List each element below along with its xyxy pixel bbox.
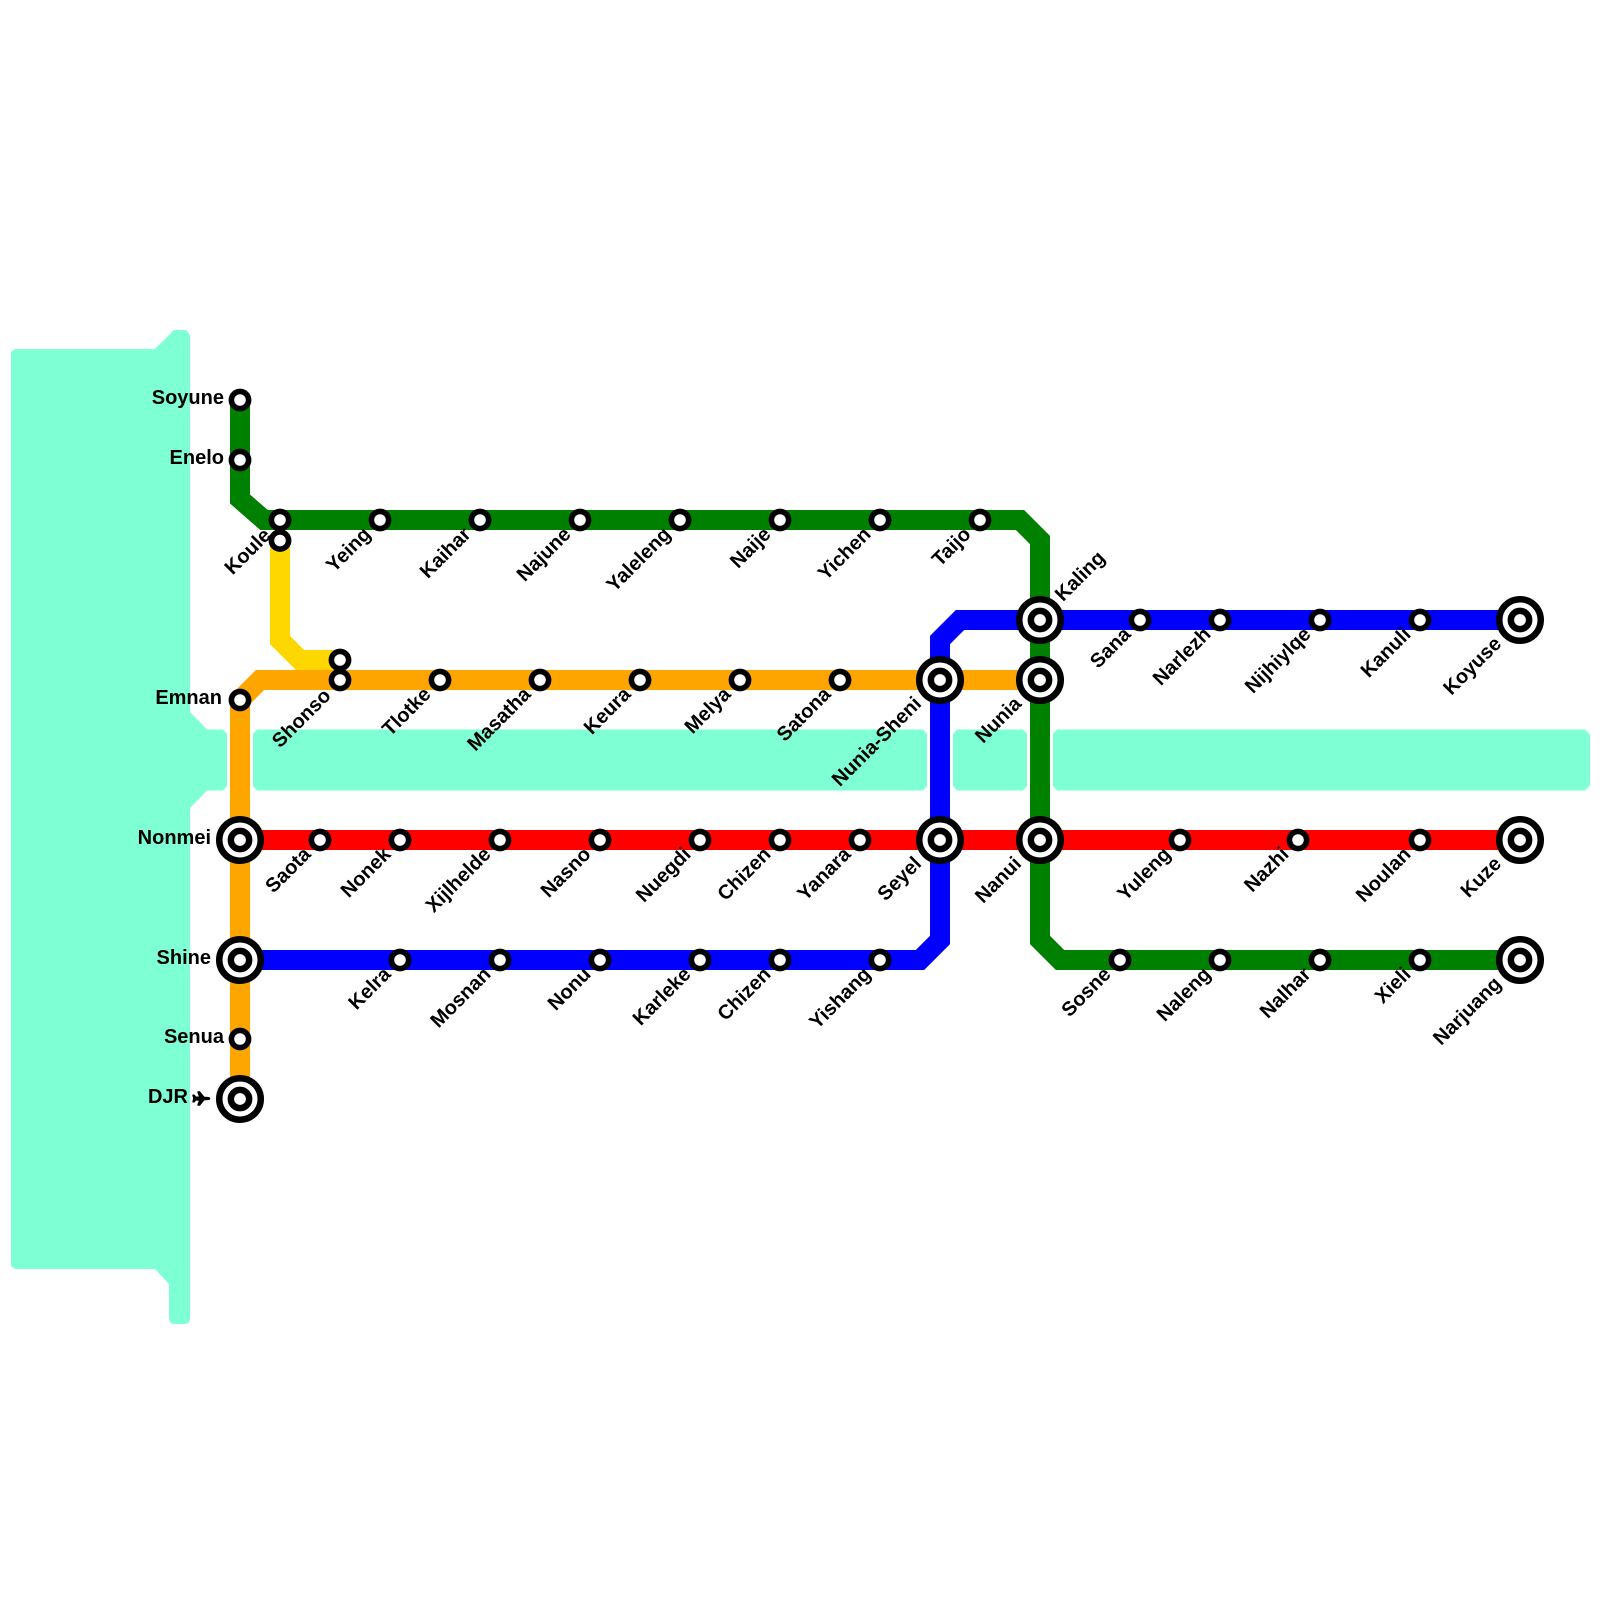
svg-text:Enelo: Enelo (170, 447, 224, 469)
station Kaihar (471, 511, 488, 528)
river (vertical band + horizontal band) (11, 330, 1590, 1324)
svg-text:DJR: DJR (148, 1086, 189, 1108)
svg-text:Emnan: Emnan (155, 687, 222, 709)
station Nonu (591, 951, 608, 968)
svg-text:Nonmei: Nonmei (138, 827, 211, 849)
interchange station Nonmei (219, 819, 261, 861)
station Satona (831, 671, 848, 688)
station Xieli (1411, 951, 1428, 968)
station Emnan (231, 691, 248, 708)
station Naije (771, 511, 788, 528)
station Nasno (591, 831, 608, 848)
station Yaleleng (671, 511, 688, 528)
station Melya (731, 671, 748, 688)
station Shonso (orange) (331, 671, 348, 688)
station Nonek (391, 831, 408, 848)
station Saota (311, 831, 328, 848)
station Yeing (371, 511, 388, 528)
station Koule (yellow) (271, 532, 288, 549)
interchange station Narjuang (1499, 939, 1541, 981)
station Nijhiylqe (1311, 611, 1328, 628)
station Karleke (691, 951, 708, 968)
station Najune (571, 511, 588, 528)
station Kanuli (1411, 611, 1428, 628)
interchange station Seyel (919, 819, 961, 861)
interchange station Nunia-Sheni (919, 659, 961, 701)
station Yichen (871, 511, 888, 528)
station Masatha (531, 671, 548, 688)
orange line DJR-Nunia (240, 680, 1040, 1090)
station Chizen (red) (771, 831, 788, 848)
station Nazhi (1289, 831, 1306, 848)
interchange station Koyuse (1499, 599, 1541, 641)
station Yuleng (1171, 831, 1188, 848)
station Senua (231, 1030, 248, 1047)
svg-text:Soyune: Soyune (152, 387, 224, 409)
svg-text:Senua: Senua (164, 1026, 225, 1048)
interchange station Nunia (1019, 659, 1061, 701)
white channel for blue line across river (923, 729, 958, 791)
interchange station Nanui (1019, 819, 1061, 861)
station Xijlhelde (491, 831, 508, 848)
station Tlotke (431, 671, 448, 688)
green line Soyune-Narjuang (240, 400, 1520, 960)
station Yishang (871, 951, 888, 968)
station Keura (631, 671, 648, 688)
station Taijo (971, 511, 988, 528)
station Kelra (391, 951, 408, 968)
station Noulan (1411, 831, 1428, 848)
station Naleng (1211, 951, 1228, 968)
station Yanara (851, 831, 868, 848)
red line Nonmei-Kuze (240, 830, 1520, 850)
station Nalhar (1311, 951, 1328, 968)
station Enelo (231, 451, 248, 468)
station Soyune (231, 391, 248, 408)
station Sana (1131, 611, 1148, 628)
interchange station DJR (219, 1078, 261, 1120)
svg-text:Shine: Shine (157, 947, 211, 969)
station Koule (green) (271, 511, 288, 528)
station Chizen (blue) (771, 951, 788, 968)
white channel for green line across river (1023, 729, 1058, 791)
station Narlezh (1211, 611, 1228, 628)
station Sosne (1111, 951, 1128, 968)
interchange station Kaling (1019, 599, 1061, 641)
yellow line Koule-Shonso (280, 540, 340, 660)
interchange station Shine (219, 939, 261, 981)
white channel for orange line across river (223, 729, 258, 791)
interchange station Kuze (1499, 819, 1541, 861)
station Mosnan (491, 951, 508, 968)
station Nuegdi (691, 831, 708, 848)
airport symbol at DJR (193, 1092, 210, 1105)
blue line Shine-Koyuse (240, 620, 1520, 960)
station Shonso (yellow) (331, 651, 348, 668)
